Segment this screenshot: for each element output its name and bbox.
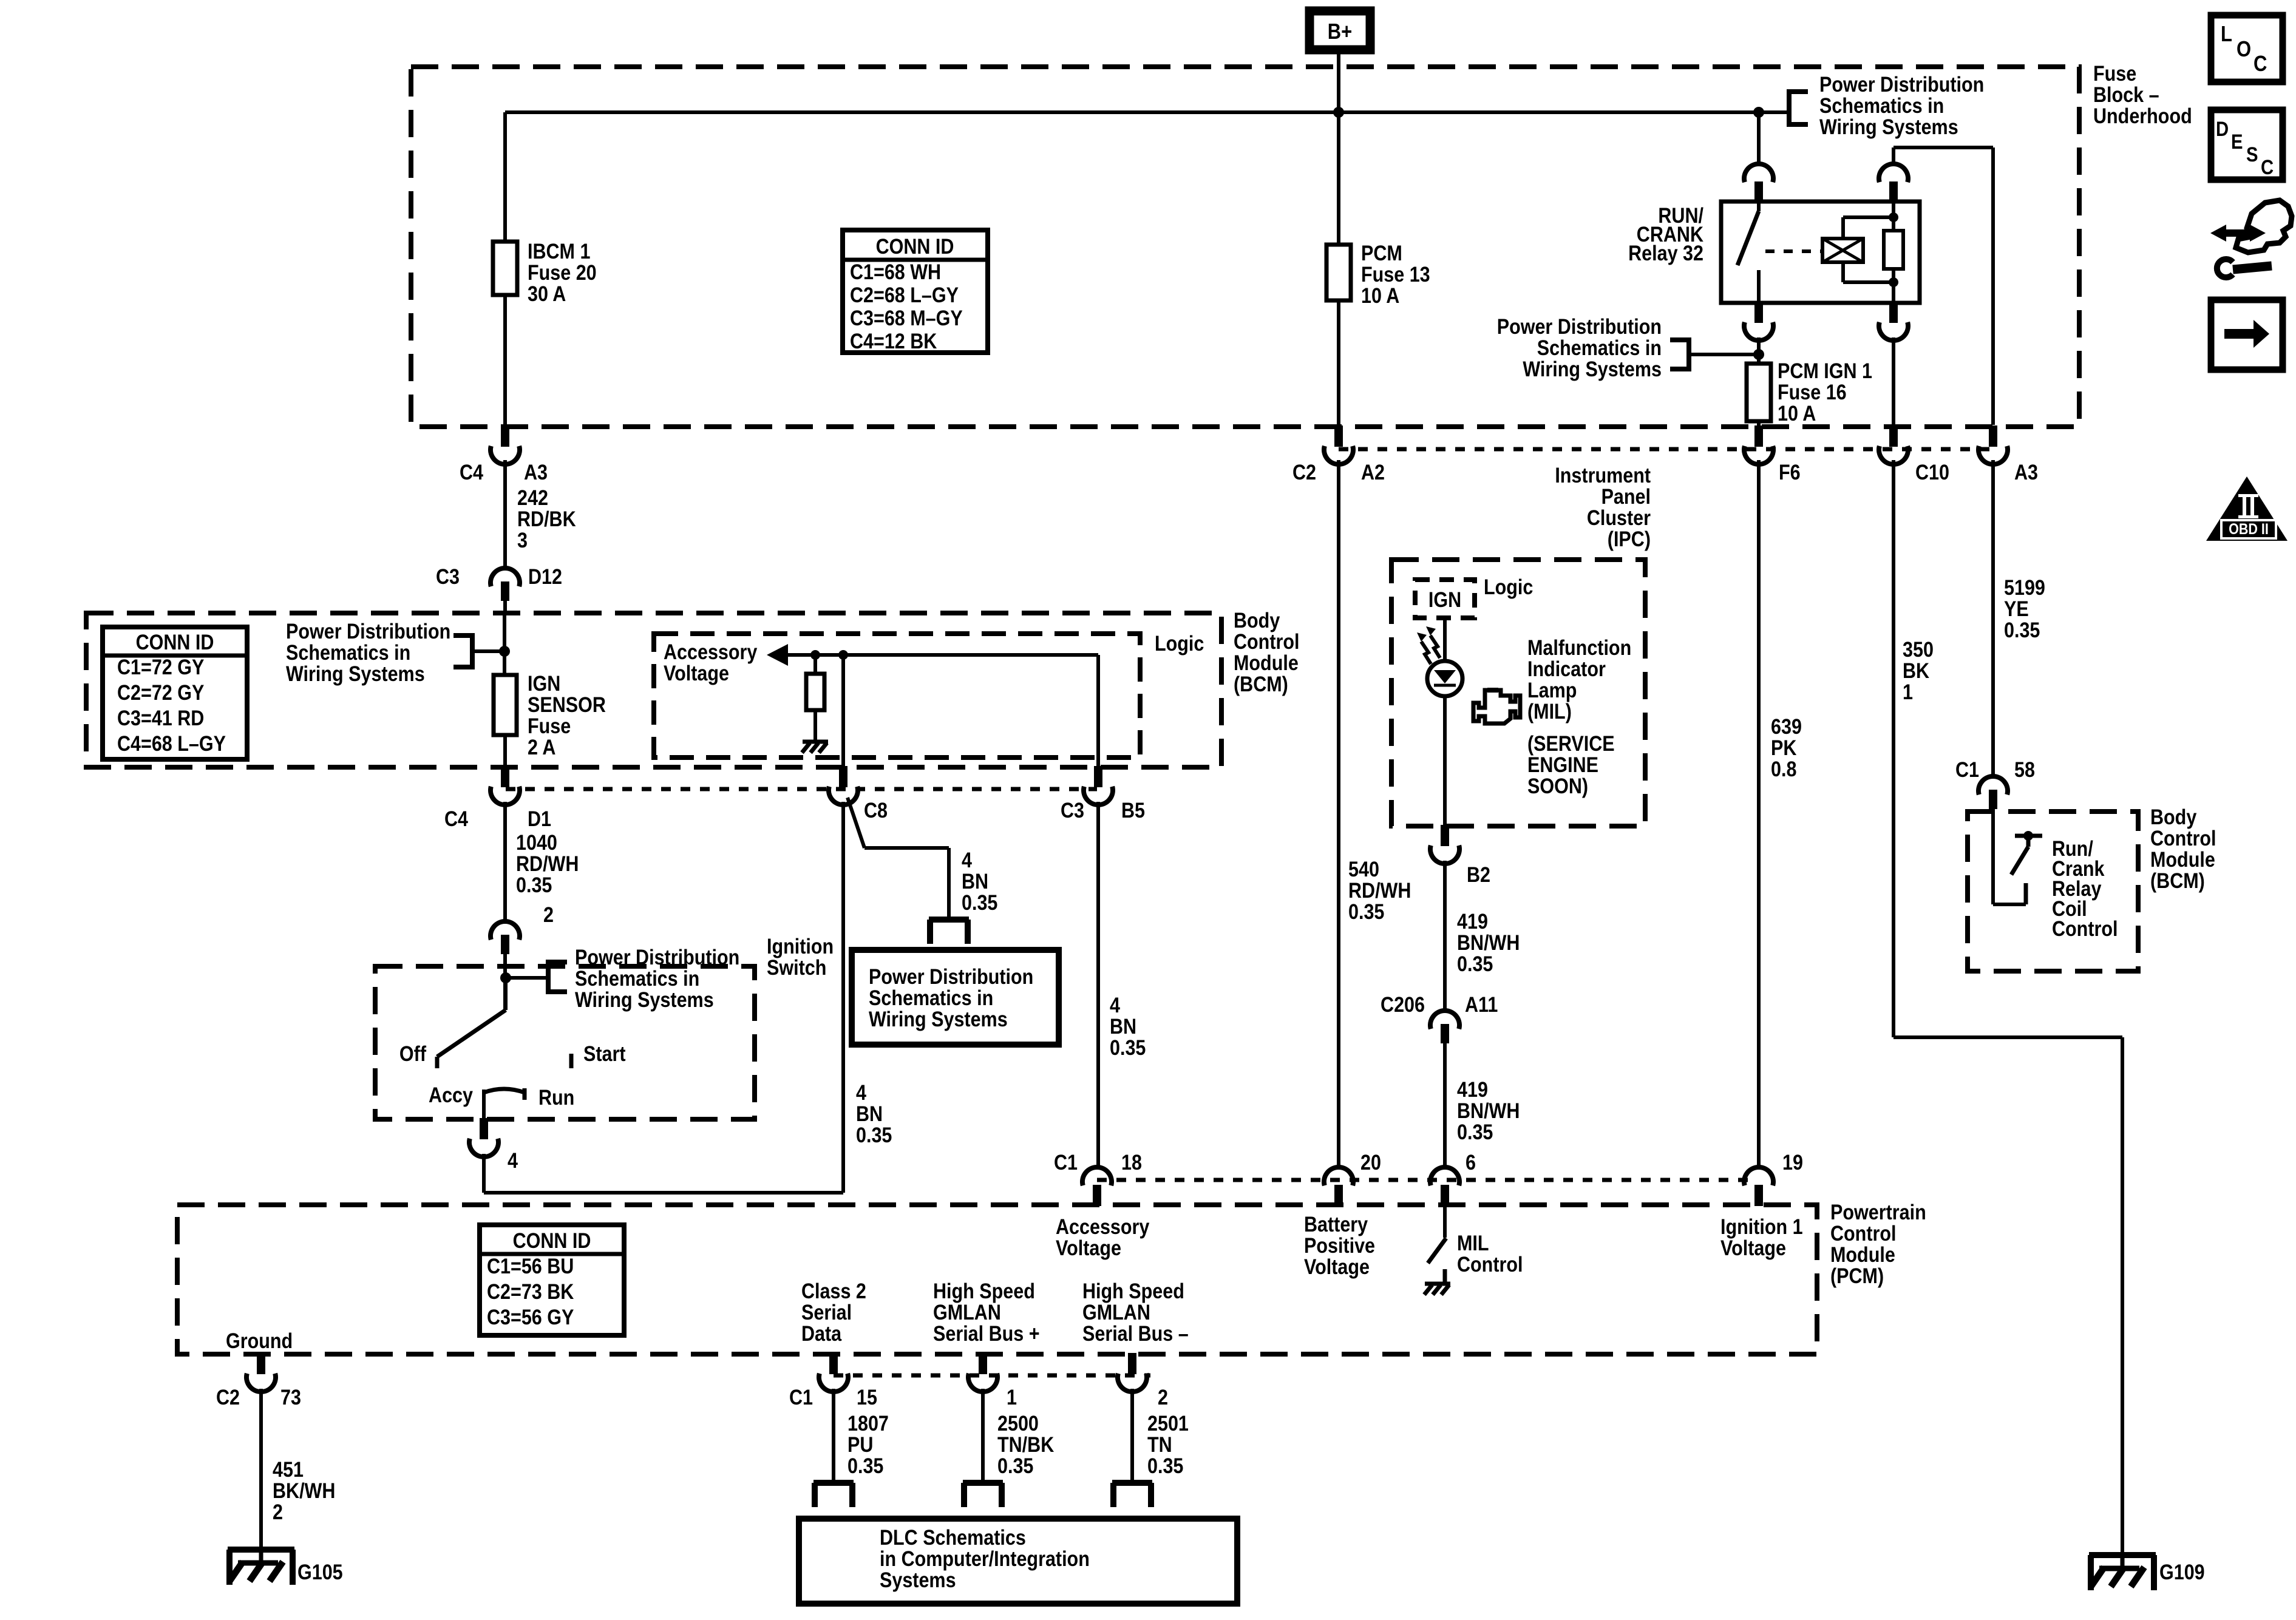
svg-text:B5: B5: [1121, 799, 1145, 823]
svg-text:PCM: PCM: [1361, 242, 1402, 266]
svg-text:in Computer/Integration: in Computer/Integration: [880, 1547, 1090, 1571]
svg-text:Fuse 13: Fuse 13: [1361, 263, 1430, 287]
svg-text:451: 451: [273, 1458, 304, 1482]
svg-text:Body: Body: [2150, 805, 2197, 830]
svg-text:Serial Bus –: Serial Bus –: [1082, 1322, 1189, 1346]
svg-text:A3: A3: [524, 461, 548, 485]
svg-text:C1=72 GY: C1=72 GY: [117, 656, 204, 680]
svg-text:Fuse 20: Fuse 20: [528, 261, 597, 285]
svg-text:CONN ID: CONN ID: [876, 235, 954, 259]
svg-text:YE: YE: [2004, 597, 2029, 622]
svg-text:(SERVICE: (SERVICE: [1527, 732, 1615, 756]
svg-text:350: 350: [1903, 638, 1934, 662]
svg-text:1807: 1807: [847, 1412, 889, 1436]
svg-text:1040: 1040: [516, 831, 557, 855]
svg-text:PU: PU: [847, 1433, 873, 1457]
svg-text:C4=68 L–GY: C4=68 L–GY: [117, 732, 226, 756]
svg-text:BN/WH: BN/WH: [1457, 931, 1520, 955]
svg-text:Voltage: Voltage: [1056, 1236, 1121, 1261]
svg-text:Wiring Systems: Wiring Systems: [1523, 358, 1662, 382]
svg-text:Accessory: Accessory: [1056, 1215, 1150, 1239]
svg-text:C: C: [2254, 52, 2267, 76]
svg-text:Body: Body: [1234, 609, 1280, 633]
svg-text:Ground: Ground: [226, 1329, 293, 1354]
svg-text:0.35: 0.35: [997, 1454, 1033, 1479]
svg-text:ENGINE: ENGINE: [1527, 753, 1598, 778]
svg-text:Class 2: Class 2: [801, 1279, 866, 1304]
svg-text:A2: A2: [1361, 461, 1385, 485]
svg-text:CONN ID: CONN ID: [513, 1229, 591, 1253]
svg-text:2501: 2501: [1147, 1412, 1189, 1436]
svg-text:30 A: 30 A: [528, 282, 566, 307]
svg-text:D: D: [2216, 117, 2229, 141]
svg-text:C1: C1: [789, 1386, 813, 1410]
svg-text:Panel: Panel: [1601, 485, 1651, 509]
svg-text:IBCM 1: IBCM 1: [528, 240, 590, 264]
svg-text:C1: C1: [1054, 1151, 1078, 1175]
svg-text:Systems: Systems: [880, 1568, 956, 1593]
svg-text:2 A: 2 A: [528, 736, 555, 760]
svg-text:0.35: 0.35: [1110, 1036, 1146, 1060]
svg-text:540: 540: [1348, 858, 1379, 882]
svg-text:Voltage: Voltage: [664, 662, 729, 686]
svg-text:Serial: Serial: [801, 1301, 852, 1325]
svg-text:0.35: 0.35: [1457, 1120, 1493, 1145]
svg-text:DLC Schematics: DLC Schematics: [880, 1526, 1026, 1550]
svg-text:F6: F6: [1779, 461, 1801, 485]
svg-text:High Speed: High Speed: [1082, 1279, 1184, 1304]
svg-text:GMLAN: GMLAN: [933, 1301, 1001, 1325]
svg-text:Logic: Logic: [1484, 575, 1533, 600]
svg-text:Voltage: Voltage: [1720, 1236, 1786, 1261]
svg-text:L: L: [2221, 22, 2232, 47]
svg-text:15: 15: [857, 1386, 877, 1410]
svg-text:Switch: Switch: [767, 956, 826, 980]
svg-text:Battery: Battery: [1304, 1213, 1368, 1237]
svg-text:BN: BN: [1110, 1015, 1136, 1039]
svg-text:Control: Control: [1234, 630, 1299, 654]
svg-text:2500: 2500: [997, 1412, 1039, 1436]
svg-text:3: 3: [517, 529, 528, 553]
svg-text:Power Distribution: Power Distribution: [869, 965, 1033, 989]
svg-text:BK: BK: [1903, 659, 1929, 683]
svg-text:73: 73: [280, 1386, 301, 1410]
svg-text:Module: Module: [1830, 1243, 1895, 1267]
svg-text:Wiring Systems: Wiring Systems: [1819, 115, 1958, 140]
svg-text:Underhood: Underhood: [2093, 104, 2192, 129]
svg-text:Start: Start: [583, 1042, 626, 1066]
svg-text:Control: Control: [2052, 917, 2118, 941]
svg-text:Logic: Logic: [1155, 632, 1204, 656]
svg-text:C2=72 GY: C2=72 GY: [117, 681, 204, 705]
svg-text:10 A: 10 A: [1778, 402, 1816, 426]
svg-text:IGN: IGN: [1428, 588, 1461, 612]
svg-text:RD/BK: RD/BK: [517, 507, 576, 532]
svg-text:B2: B2: [1467, 863, 1490, 887]
svg-text:4: 4: [856, 1081, 867, 1105]
svg-text:C3=68 M–GY: C3=68 M–GY: [850, 307, 963, 331]
svg-text:A11: A11: [1465, 993, 1498, 1017]
svg-text:0.35: 0.35: [962, 891, 997, 915]
svg-text:C1=56 BU: C1=56 BU: [487, 1255, 574, 1279]
svg-text:C3: C3: [436, 565, 460, 589]
svg-text:OBD II: OBD II: [2229, 520, 2269, 537]
svg-text:Block –: Block –: [2093, 83, 2159, 107]
svg-text:Run: Run: [538, 1086, 574, 1110]
svg-text:G109: G109: [2159, 1561, 2205, 1585]
svg-text:E: E: [2231, 130, 2243, 154]
svg-text:C1: C1: [1955, 758, 1979, 782]
svg-text:0.35: 0.35: [2004, 619, 2040, 643]
svg-text:4: 4: [1110, 994, 1121, 1018]
svg-text:0.8: 0.8: [1771, 757, 1796, 782]
svg-text:(MIL): (MIL): [1527, 700, 1572, 724]
svg-text:O: O: [2237, 38, 2251, 62]
svg-text:Wiring Systems: Wiring Systems: [575, 988, 714, 1012]
svg-text:C2: C2: [1292, 461, 1316, 485]
svg-text:639: 639: [1771, 715, 1802, 739]
svg-text:RD/WH: RD/WH: [516, 852, 579, 876]
svg-text:5199: 5199: [2004, 576, 2045, 600]
svg-text:10 A: 10 A: [1361, 284, 1399, 308]
svg-text:Malfunction: Malfunction: [1527, 636, 1631, 660]
svg-text:Control: Control: [2150, 827, 2216, 851]
svg-text:Indicator: Indicator: [1527, 657, 1606, 682]
svg-text:Lamp: Lamp: [1527, 679, 1577, 703]
svg-text:Off: Off: [399, 1042, 427, 1066]
svg-text:CONN ID: CONN ID: [136, 631, 214, 655]
svg-text:Module: Module: [1234, 651, 1299, 676]
svg-text:High Speed: High Speed: [933, 1279, 1035, 1304]
svg-text:BN: BN: [962, 870, 988, 894]
svg-text:PK: PK: [1771, 736, 1796, 761]
svg-text:Cluster: Cluster: [1587, 506, 1651, 530]
svg-text:Power Distribution: Power Distribution: [1497, 315, 1662, 339]
svg-text:C206: C206: [1381, 993, 1425, 1017]
svg-text:4: 4: [508, 1149, 518, 1173]
svg-text:Power Distribution: Power Distribution: [1819, 73, 1984, 97]
svg-text:B+: B+: [1328, 20, 1352, 44]
svg-text:Ignition: Ignition: [767, 935, 834, 959]
svg-text:18: 18: [1121, 1151, 1142, 1175]
svg-text:C10: C10: [1915, 461, 1949, 485]
svg-text:0.35: 0.35: [1457, 952, 1493, 977]
svg-text:19: 19: [1782, 1151, 1803, 1175]
svg-text:C2: C2: [216, 1386, 240, 1410]
svg-text:2: 2: [543, 903, 554, 927]
svg-text:C4: C4: [444, 807, 469, 832]
svg-text:C1=68 WH: C1=68 WH: [850, 260, 941, 285]
svg-text:TN: TN: [1147, 1433, 1172, 1457]
svg-text:Wiring Systems: Wiring Systems: [286, 662, 425, 686]
svg-text:C2=68 L–GY: C2=68 L–GY: [850, 283, 959, 308]
svg-text:Relay 32: Relay 32: [1628, 242, 1703, 266]
svg-text:(PCM): (PCM): [1830, 1264, 1884, 1289]
svg-text:G105: G105: [297, 1561, 343, 1585]
svg-text:BK/WH: BK/WH: [273, 1479, 335, 1503]
svg-text:Module: Module: [2150, 848, 2215, 872]
svg-text:MIL: MIL: [1457, 1232, 1489, 1256]
svg-text:Fuse: Fuse: [528, 714, 571, 739]
svg-text:20: 20: [1360, 1151, 1381, 1175]
svg-text:D1: D1: [528, 807, 551, 832]
svg-text:Fuse: Fuse: [2093, 62, 2136, 86]
svg-text:Powertrain: Powertrain: [1830, 1201, 1926, 1225]
svg-text:(BCM): (BCM): [2150, 869, 2205, 893]
svg-text:Accy: Accy: [429, 1083, 474, 1108]
svg-text:C3=56 GY: C3=56 GY: [487, 1306, 574, 1330]
svg-text:58: 58: [2014, 758, 2035, 782]
svg-text:Schematics in: Schematics in: [1819, 94, 1944, 118]
svg-text:0.35: 0.35: [847, 1454, 883, 1479]
svg-text:Schematics in: Schematics in: [1537, 336, 1662, 361]
svg-text:C4: C4: [460, 461, 484, 485]
svg-text:C3: C3: [1061, 799, 1084, 823]
svg-text:419: 419: [1457, 910, 1488, 934]
svg-text:0.35: 0.35: [1147, 1454, 1183, 1479]
svg-text:D12: D12: [528, 565, 562, 589]
svg-text:C4=12 BK: C4=12 BK: [850, 330, 937, 354]
svg-text:Accessory: Accessory: [664, 640, 758, 665]
svg-text:4: 4: [962, 849, 973, 873]
svg-text:(IPC): (IPC): [1608, 527, 1651, 552]
svg-text:C3=41 RD: C3=41 RD: [117, 707, 204, 731]
svg-text:Ignition 1: Ignition 1: [1720, 1215, 1803, 1239]
svg-text:IGN: IGN: [528, 672, 560, 696]
svg-text:242: 242: [517, 486, 548, 510]
svg-text:A3: A3: [2014, 461, 2038, 485]
svg-text:Schematics in: Schematics in: [869, 986, 993, 1011]
svg-text:BN/WH: BN/WH: [1457, 1099, 1520, 1123]
svg-text:2: 2: [1158, 1386, 1168, 1410]
svg-text:Positive: Positive: [1304, 1234, 1375, 1258]
svg-text:Fuse 16: Fuse 16: [1778, 381, 1847, 405]
svg-text:2: 2: [273, 1500, 283, 1525]
svg-text:SOON): SOON): [1527, 774, 1588, 799]
svg-text:Voltage: Voltage: [1304, 1255, 1370, 1279]
svg-text:S: S: [2246, 143, 2258, 166]
svg-text:TN/BK: TN/BK: [997, 1433, 1054, 1457]
svg-text:SENSOR: SENSOR: [528, 693, 606, 717]
svg-text:BN: BN: [856, 1102, 883, 1127]
svg-text:0.35: 0.35: [1348, 900, 1384, 924]
svg-text:1: 1: [1903, 680, 1913, 705]
svg-text:GMLAN: GMLAN: [1082, 1301, 1150, 1325]
svg-text:Serial Bus +: Serial Bus +: [933, 1322, 1040, 1346]
svg-text:Power Distribution: Power Distribution: [286, 620, 450, 644]
svg-text:C2=73 BK: C2=73 BK: [487, 1280, 574, 1304]
svg-text:6: 6: [1466, 1151, 1476, 1175]
svg-text:C8: C8: [864, 799, 888, 823]
svg-text:C: C: [2261, 155, 2274, 179]
svg-text:(BCM): (BCM): [1234, 673, 1288, 697]
svg-text:PCM IGN 1: PCM IGN 1: [1778, 359, 1872, 384]
svg-text:Data: Data: [801, 1322, 842, 1346]
svg-text:419: 419: [1457, 1078, 1488, 1102]
svg-text:0.35: 0.35: [516, 873, 552, 898]
svg-text:Wiring Systems: Wiring Systems: [869, 1008, 1008, 1032]
svg-text:1: 1: [1007, 1386, 1017, 1410]
svg-text:Schematics in: Schematics in: [286, 641, 410, 665]
svg-text:0.35: 0.35: [856, 1123, 892, 1148]
svg-text:Control: Control: [1457, 1253, 1523, 1277]
svg-text:Instrument: Instrument: [1555, 464, 1651, 488]
svg-text:Power Distribution: Power Distribution: [575, 946, 739, 970]
svg-text:Control: Control: [1830, 1222, 1896, 1246]
svg-text:Schematics in: Schematics in: [575, 967, 699, 991]
svg-text:RD/WH: RD/WH: [1348, 879, 1411, 903]
